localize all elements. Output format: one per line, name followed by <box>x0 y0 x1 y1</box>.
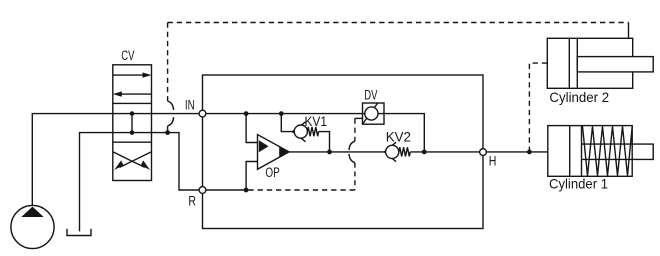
node junction on IN line at x281 <box>279 111 284 116</box>
cylinder 2 <box>547 38 653 88</box>
check valve KV2 <box>384 142 410 162</box>
valve CV <box>113 65 152 181</box>
check valve KV1 <box>293 122 319 142</box>
label H <box>489 154 497 169</box>
node H <box>480 149 487 156</box>
label KV2 <box>386 130 411 145</box>
wire IN line through DV to main line <box>203 114 425 152</box>
svg-text:IN: IN <box>185 98 195 113</box>
label Cylinder 2 <box>549 89 609 105</box>
label CV <box>121 48 134 63</box>
svg-text:OP: OP <box>265 165 279 180</box>
pilot line top dashed to cylinder 2 <box>168 22 629 24</box>
manifold box <box>203 75 484 229</box>
svg-text:Cylinder 2: Cylinder 2 <box>549 89 609 105</box>
pilot line cylinder 2 left port (dashed) <box>529 63 547 152</box>
wire KV1 outlet down to main line <box>319 132 330 152</box>
wire cylinder 2 top stub <box>628 23 630 39</box>
wire main pressure line KV2 to cylinder 1 <box>410 151 548 153</box>
label IN <box>185 98 195 113</box>
svg-text:H: H <box>489 154 497 169</box>
pump <box>11 205 54 248</box>
cylinder 1 <box>548 126 653 177</box>
wire KV1 branch from IN line <box>281 114 292 132</box>
node R <box>199 187 206 194</box>
label DV <box>364 88 377 103</box>
node junction cylinder line <box>527 150 532 155</box>
op-amp symbol OP <box>258 135 290 170</box>
svg-text:KV1: KV1 <box>305 114 328 129</box>
wire tank line to valve lower port <box>80 133 168 232</box>
svg-text:DV: DV <box>364 88 377 103</box>
label OP <box>265 165 279 180</box>
wire pump supply to valve and IN line <box>32 114 202 206</box>
wire OP upper input <box>246 114 257 143</box>
label KV1 <box>305 114 328 129</box>
node IN <box>199 110 206 117</box>
label R <box>188 194 196 209</box>
tank <box>67 229 91 236</box>
svg-text:CV: CV <box>121 48 134 63</box>
node junction OP outlet <box>327 150 332 155</box>
pilot line to CV (dashed vertical with hop over IN line) <box>168 23 174 133</box>
wire main pressure line OP to KV2 <box>289 151 384 153</box>
wire OP lower input <box>246 162 257 191</box>
wire valve lower port to R node <box>168 133 247 190</box>
valve DV <box>355 103 384 124</box>
svg-text:KV2: KV2 <box>386 130 411 145</box>
svg-text:R: R <box>188 194 196 209</box>
svg-text:Cylinder 1: Cylinder 1 <box>549 176 608 192</box>
node junction on IN line at x246 <box>244 111 249 116</box>
node junction on R line at x246 <box>244 188 249 193</box>
node junction pilot to valve lower port <box>165 130 170 135</box>
node junction KV2 outlet <box>422 150 427 155</box>
label Cylinder 1 <box>549 176 608 192</box>
pilot line DV to R line (dashed with hop) <box>246 118 355 190</box>
